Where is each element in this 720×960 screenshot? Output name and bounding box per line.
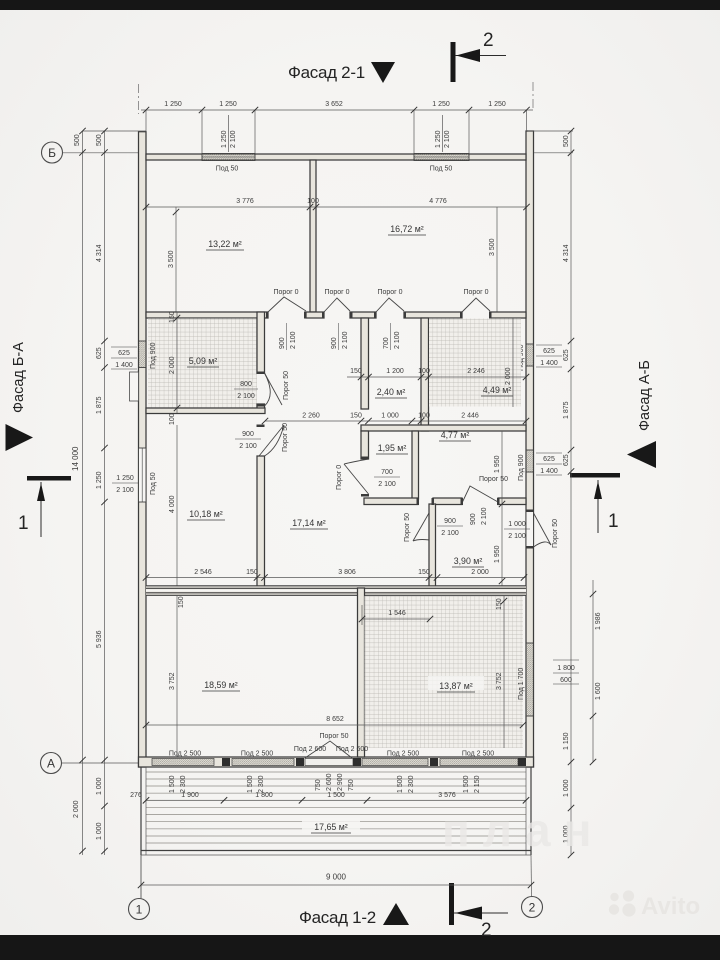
room label 4.49 [481, 385, 513, 396]
window label stub 2 [435, 115, 451, 152]
svg-text:100: 100 [418, 413, 430, 420]
right wall window 625 mid [518, 450, 534, 481]
svg-text:Фасад 2-1: Фасад 2-1 [288, 63, 365, 82]
right wall window 625 upper [518, 344, 534, 371]
svg-text:2 100: 2 100 [441, 530, 459, 537]
svg-text:4,49 м²: 4,49 м² [483, 385, 512, 395]
svg-text:Под 2 500: Под 2 500 [462, 751, 494, 758]
svg-text:16,72 м²: 16,72 м² [390, 224, 424, 234]
svg-text:1 150: 1 150 [563, 732, 570, 750]
wall between 18.59 and 13.87 [358, 588, 365, 757]
svg-text:5 936: 5 936 [96, 630, 103, 648]
room label 13.87 [428, 676, 484, 692]
svg-text:2 246: 2 246 [467, 368, 485, 375]
svg-text:4 314: 4 314 [563, 244, 570, 262]
outer wall bottom (row A) [139, 757, 534, 767]
svg-text:1 200: 1 200 [386, 368, 404, 375]
svg-text:625: 625 [563, 454, 570, 466]
svg-text:Под 50: Под 50 [216, 166, 239, 173]
svg-text:3 576: 3 576 [438, 792, 456, 799]
bottom wall window strips [152, 759, 518, 766]
svg-text:план: план [442, 804, 604, 856]
svg-text:150: 150 [169, 311, 176, 323]
svg-text:17,65 м²: 17,65 м² [314, 822, 348, 832]
top dimension chain [141, 101, 533, 153]
svg-text:Под 50: Под 50 [430, 166, 453, 173]
svg-text:1,95 м²: 1,95 м² [378, 443, 407, 453]
room 5.09 hatched floor [148, 319, 257, 408]
left wall window 625 [139, 341, 158, 369]
svg-text:Под 900: Под 900 [518, 454, 525, 481]
svg-text:2: 2 [529, 901, 536, 915]
dim line y800 below wall [130, 792, 529, 804]
vertical dim 1950 pair [494, 431, 505, 588]
svg-text:2 100: 2 100 [378, 481, 396, 488]
bottom wall posts [222, 758, 526, 766]
outer wall right [526, 131, 534, 767]
room label 10.18 [187, 509, 225, 520]
svg-text:13,87 м²: 13,87 м² [439, 681, 473, 691]
svg-text:750: 750 [315, 779, 322, 791]
interior wall y312 with door openings [146, 312, 526, 318]
svg-text:Под 50: Под 50 [150, 472, 157, 495]
dim 9000 bottom [138, 855, 534, 898]
svg-text:625: 625 [96, 347, 103, 359]
svg-text:276: 276 [130, 792, 142, 799]
right wall window 1700 [518, 643, 534, 716]
svg-text:1: 1 [18, 513, 29, 534]
svg-text:2 546: 2 546 [194, 569, 212, 576]
pilaster box on left wall [130, 372, 139, 401]
svg-text:2 446: 2 446 [461, 413, 479, 420]
svg-text:Порог 50: Порог 50 [320, 733, 349, 740]
svg-text:500: 500 [96, 134, 103, 146]
svg-text:625: 625 [563, 349, 570, 361]
svg-text:Под 2 600: Под 2 600 [294, 746, 326, 753]
svg-text:150: 150 [350, 413, 362, 420]
svg-text:2 100: 2 100 [508, 533, 526, 540]
room label 1.95 [376, 443, 408, 454]
svg-text:2 100: 2 100 [239, 443, 257, 450]
room 13.87 hatched floor [365, 596, 524, 748]
svg-text:1 546: 1 546 [388, 610, 406, 617]
svg-text:3 500: 3 500 [168, 250, 175, 268]
svg-text:1: 1 [136, 903, 143, 917]
vertical dim inside 5.09 [169, 311, 180, 425]
label Фасад Б-А (left) [11, 342, 27, 413]
svg-text:3 500: 3 500 [489, 238, 496, 256]
svg-text:1 986: 1 986 [595, 612, 602, 630]
room label 18.59 [202, 680, 240, 691]
svg-text:2 100: 2 100 [116, 487, 134, 494]
svg-text:8 652: 8 652 [326, 716, 344, 723]
svg-text:Порог 0: Порог 0 [273, 289, 298, 296]
svg-text:2 100: 2 100 [394, 331, 401, 349]
svg-text:2 100: 2 100 [237, 393, 255, 400]
svg-text:1 400: 1 400 [540, 468, 558, 475]
svg-text:800: 800 [240, 381, 252, 388]
svg-text:Порог 0: Порог 0 [463, 289, 488, 296]
window top wall 1 [202, 154, 255, 161]
svg-text:2 900: 2 900 [337, 773, 344, 791]
svg-text:2 300: 2 300 [180, 775, 187, 793]
svg-text:Avito: Avito [641, 893, 700, 920]
door peak o4 [462, 289, 490, 350]
svg-text:2 000: 2 000 [73, 800, 80, 818]
svg-text:2 000: 2 000 [471, 569, 489, 576]
svg-text:1 800: 1 800 [557, 665, 575, 672]
room label 4.77 [439, 430, 471, 441]
room label 2.40 [375, 387, 407, 398]
grid circle 2 [522, 855, 543, 918]
svg-text:750: 750 [348, 779, 355, 791]
dim line y377 [347, 368, 529, 380]
room 4.49 hatched floor [429, 319, 521, 407]
svg-text:Порог 50: Порог 50 [479, 476, 508, 483]
svg-text:1 250: 1 250 [219, 101, 237, 108]
svg-text:600: 600 [560, 677, 572, 684]
wall between rooms 13.22 and 16.72 [310, 160, 316, 312]
grid circle Б [42, 142, 139, 163]
svg-text:1 600: 1 600 [595, 682, 602, 700]
svg-text:1 250: 1 250 [432, 101, 450, 108]
room label 17.65 veranda [302, 818, 360, 833]
svg-text:Под 2 500: Под 2 500 [387, 751, 419, 758]
outer wall left [139, 132, 147, 767]
room label 17.14 [290, 518, 328, 529]
svg-text:1 950: 1 950 [494, 455, 501, 473]
svg-text:2 100: 2 100 [290, 331, 297, 349]
svg-text:1 900: 1 900 [181, 792, 199, 799]
dim line y421 corridor [262, 413, 529, 425]
svg-text:1: 1 [608, 511, 619, 532]
grid circle 1 [129, 855, 150, 920]
room 1.95 walls [361, 431, 419, 499]
label 700/2100 in 1.95 [374, 469, 400, 488]
svg-text:Порог 0: Порог 0 [377, 289, 402, 296]
triangle marker right (left-pointing) [627, 441, 656, 468]
svg-text:1 000: 1 000 [96, 777, 103, 795]
svg-text:150: 150 [418, 569, 430, 576]
svg-text:100: 100 [418, 368, 430, 375]
door peak 3.90 top [462, 476, 508, 525]
svg-text:3 752: 3 752 [496, 672, 503, 690]
svg-text:1 250: 1 250 [96, 471, 103, 489]
door peak bottom wall [305, 733, 352, 758]
door of room 5.09 [265, 371, 291, 406]
svg-text:Порог 50: Порог 50 [283, 371, 290, 400]
rotated window dims below wall [169, 773, 481, 793]
right secondary chain [590, 580, 602, 765]
vertical dim 4000 in 10.18 [169, 425, 177, 588]
svg-text:4 314: 4 314 [96, 244, 103, 262]
svg-text:Порог 50: Порог 50 [404, 513, 411, 542]
svg-text:4 776: 4 776 [429, 198, 447, 205]
Avito logo [609, 890, 636, 916]
svg-text:1 000: 1 000 [96, 822, 103, 840]
svg-text:2 100: 2 100 [481, 507, 488, 525]
svg-text:900: 900 [470, 513, 477, 525]
svg-text:17,14 м²: 17,14 м² [292, 518, 326, 528]
svg-text:2 260: 2 260 [302, 413, 320, 420]
svg-text:900: 900 [279, 337, 286, 349]
section mark 2 top [451, 30, 507, 82]
svg-text:1 250: 1 250 [116, 475, 134, 482]
room label 13.22 [206, 239, 244, 250]
svg-text:Порог 50: Порог 50 [552, 519, 559, 548]
wall left of 3.90 [429, 504, 436, 588]
svg-text:500: 500 [74, 134, 81, 146]
dim line 3776/100/4776 [143, 198, 530, 210]
bottom black bar [0, 935, 720, 960]
room label 16.72 [388, 224, 426, 235]
svg-text:2 100: 2 100 [444, 130, 451, 148]
svg-text:900: 900 [331, 337, 338, 349]
svg-text:3,90 м²: 3,90 м² [454, 556, 483, 566]
veranda border [141, 767, 531, 855]
vertical dim 3752 in 13.87 [496, 596, 507, 748]
door peak o1 [268, 289, 306, 350]
label 800/2100 [234, 381, 258, 400]
svg-text:1 875: 1 875 [563, 401, 570, 419]
svg-text:3 652: 3 652 [325, 101, 343, 108]
svg-text:100: 100 [169, 413, 176, 425]
label 1250/2100 left [112, 475, 138, 494]
svg-text:2 150: 2 150 [474, 775, 481, 793]
svg-text:Под 2 500: Под 2 500 [241, 751, 273, 758]
svg-text:1 400: 1 400 [115, 362, 133, 369]
svg-text:Фасад Б-А: Фасад Б-А [11, 342, 27, 413]
dim 500 left top [74, 128, 146, 855]
svg-text:4 000: 4 000 [169, 495, 176, 513]
svg-text:1 000: 1 000 [381, 413, 399, 420]
svg-text:Под 1 700: Под 1 700 [518, 668, 525, 700]
section mark 1 right [570, 473, 620, 533]
room label 3.90 [452, 556, 484, 567]
svg-text:150: 150 [496, 598, 503, 610]
svg-text:2: 2 [483, 30, 494, 51]
svg-text:Порог 0: Порог 0 [336, 465, 343, 490]
vertical dim 2000 right of 4.49 [505, 318, 513, 407]
window top wall 2 [414, 154, 469, 161]
left chain labels bottom [73, 777, 108, 854]
svg-text:Фасад 1-2: Фасад 1-2 [299, 908, 376, 927]
label 625/1400 right mid [536, 453, 562, 475]
svg-text:1 500: 1 500 [397, 775, 404, 793]
dim 8652 [143, 716, 526, 728]
svg-text:1 250: 1 250 [221, 130, 228, 148]
svg-text:900: 900 [444, 518, 456, 525]
svg-text:625: 625 [118, 350, 130, 357]
section mark 2 bottom [449, 883, 508, 941]
label 625/1400 right upper [536, 345, 562, 367]
wall between 2.40 and 4.49 [421, 318, 429, 431]
svg-text:3 776: 3 776 [236, 198, 254, 205]
svg-text:1 000: 1 000 [563, 779, 570, 797]
door at 10.18 top right [259, 423, 289, 456]
svg-text:2 300: 2 300 [258, 775, 265, 793]
svg-text:1 000: 1 000 [508, 521, 526, 528]
corridor left wall x361 upper [361, 318, 369, 409]
svg-text:900: 900 [242, 431, 254, 438]
grid circle А [41, 753, 139, 774]
section mark 1 left [18, 476, 71, 537]
svg-text:500: 500 [563, 135, 570, 147]
svg-text:13,22 м²: 13,22 м² [208, 239, 242, 249]
svg-text:Под 900: Под 900 [150, 342, 157, 369]
svg-text:2 300: 2 300 [408, 775, 415, 793]
svg-text:1 250: 1 250 [435, 130, 442, 148]
svg-text:2: 2 [481, 920, 492, 941]
label 625/1400 left [111, 347, 137, 369]
svg-text:1 500: 1 500 [463, 775, 470, 793]
svg-text:1 500: 1 500 [327, 792, 345, 799]
room 10.18 right wall [257, 456, 265, 588]
axis dash above left wall [138, 84, 140, 114]
dim 500 right top [528, 128, 574, 855]
veranda deck lines [146, 772, 526, 843]
room label 5.09 [187, 356, 219, 367]
wall opening end caps [257, 312, 534, 549]
top black bar [0, 0, 720, 10]
svg-text:3 806: 3 806 [338, 569, 356, 576]
svg-text:2 600: 2 600 [326, 773, 333, 791]
svg-text:2 000: 2 000 [505, 367, 512, 385]
svg-text:1 875: 1 875 [96, 396, 103, 414]
svg-text:1 250: 1 250 [488, 101, 506, 108]
svg-text:Порог 0: Порог 0 [324, 289, 349, 296]
title Фасад 2-1 [288, 63, 365, 82]
svg-text:Под 2 500: Под 2 500 [169, 751, 201, 758]
svg-text:2 000: 2 000 [169, 356, 176, 374]
svg-text:700: 700 [381, 469, 393, 476]
door at 3.90 left [404, 506, 436, 542]
svg-text:18,59 м²: 18,59 м² [204, 680, 238, 690]
wall y498 segments [364, 498, 526, 505]
svg-text:150: 150 [246, 569, 258, 576]
label 900/2100 at 10.18 door [235, 431, 261, 450]
label 900/2100 at 3.90 left door [437, 518, 463, 537]
svg-text:2 100: 2 100 [342, 331, 349, 349]
room 5.09 right wall [257, 312, 265, 413]
door room 1.95 [336, 459, 369, 494]
svg-text:625: 625 [543, 456, 555, 463]
label 1000/2100 right door [504, 521, 530, 540]
title Фасад 1-2 bottom [299, 908, 376, 927]
axis dash above right wall [532, 82, 534, 108]
label Фасад А-Б (right) [637, 360, 653, 431]
svg-text:150: 150 [178, 596, 185, 608]
svg-text:100: 100 [307, 198, 319, 205]
window labels above bottom wall [169, 746, 494, 758]
svg-text:Порог 50: Порог 50 [282, 423, 289, 452]
vertical dim 3500 room 16.72 [489, 207, 497, 312]
wall y425 under 2.40/4.49 [361, 425, 526, 431]
svg-text:9 000: 9 000 [326, 873, 347, 882]
window label stub 1 [221, 115, 237, 152]
svg-text:14 000: 14 000 [71, 446, 80, 471]
left wall window 1250 [139, 448, 158, 502]
triangle marker bottom (up) [383, 903, 409, 925]
svg-text:1 800: 1 800 [255, 792, 273, 799]
svg-text:2,40 м²: 2,40 м² [377, 387, 406, 397]
left chain labels upper [71, 244, 108, 763]
svg-text:700: 700 [383, 337, 390, 349]
triangle marker top (down) [371, 62, 395, 83]
right chain labels [563, 244, 574, 858]
svg-text:Б: Б [48, 146, 56, 160]
exterior door right wall [526, 511, 559, 548]
svg-text:10,18 м²: 10,18 м² [189, 509, 223, 519]
svg-text:1 250: 1 250 [164, 101, 182, 108]
svg-text:1 950: 1 950 [494, 545, 501, 563]
svg-text:Под 2 600: Под 2 600 [336, 746, 368, 753]
room 5.09 bottom wall [146, 408, 265, 414]
svg-text:625: 625 [543, 348, 555, 355]
vertical dim 3500 room 13.22 [168, 207, 179, 312]
svg-text:Фасад А-Б: Фасад А-Б [637, 360, 653, 431]
dim 1546 [359, 605, 433, 625]
svg-text:А: А [47, 757, 55, 771]
label 1800/600 [553, 660, 579, 684]
triangle marker left (right-pointing) [6, 424, 34, 451]
svg-text:2 100: 2 100 [230, 130, 237, 148]
outer wall top [146, 154, 526, 160]
door peak o2 [324, 289, 350, 350]
svg-text:5,09 м²: 5,09 м² [189, 356, 218, 366]
svg-text:4,77 м²: 4,77 м² [441, 430, 470, 440]
dim line y574 [143, 569, 527, 581]
svg-text:1 500: 1 500 [247, 775, 254, 793]
mid horizontal wall y586 [146, 586, 526, 609]
door peak o3 [376, 289, 404, 350]
svg-text:150: 150 [350, 368, 362, 375]
svg-text:3 752: 3 752 [169, 672, 176, 690]
svg-text:1 500: 1 500 [169, 775, 176, 793]
vertical dim 3752 in 18.59 [169, 596, 177, 757]
svg-text:1 400: 1 400 [540, 360, 558, 367]
